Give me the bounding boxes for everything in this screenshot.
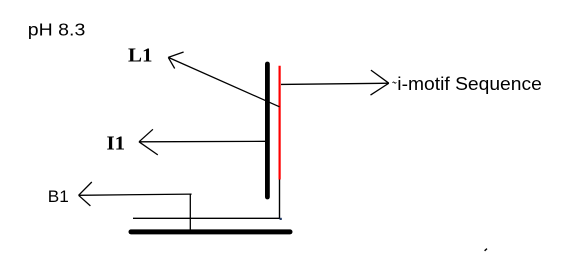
- svg-text:B1: B1: [48, 187, 69, 206]
- svg-text:i-motif Sequence: i-motif Sequence: [397, 74, 542, 94]
- svg-text:I1: I1: [107, 133, 126, 155]
- svg-text:L1: L1: [128, 44, 153, 66]
- svg-text:pH 8.3: pH 8.3: [28, 20, 86, 40]
